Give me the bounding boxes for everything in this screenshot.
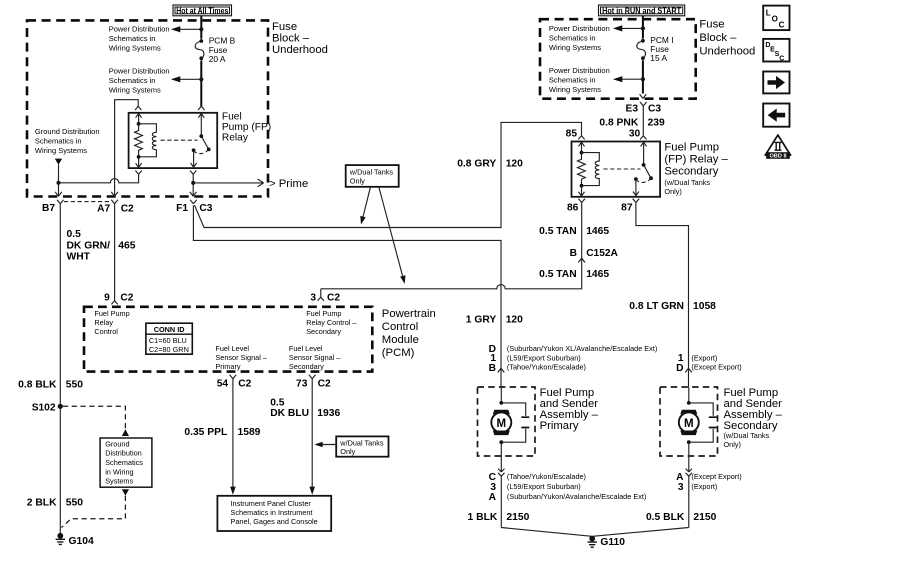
fuse block underhood dashed border (right)	[540, 19, 696, 99]
connector arrow down at B7 border	[55, 192, 62, 196]
arrow ground distribution pointer	[55, 159, 62, 165]
dashed reference from box bottom to G104 wire	[62, 496, 126, 528]
svg-text:550: 550	[66, 379, 83, 390]
svg-text:Primary: Primary	[540, 420, 579, 432]
svg-text:Wiring Systems: Wiring Systems	[109, 85, 161, 94]
label Fuel Level Sensor Signal Secondary (pcm internal)	[289, 344, 341, 371]
svg-text:Fuel Level: Fuel Level	[289, 344, 323, 353]
svg-text:465: 465	[118, 240, 135, 251]
svg-text:Ground Distribution: Ground Distribution	[35, 127, 100, 136]
wire A7 to PCM pin 9	[114, 206, 116, 301]
svg-text:C2=80 GRN: C2=80 GRN	[149, 345, 189, 354]
connector arrow down at F1 border	[190, 192, 197, 196]
arrow triangle up at box top	[122, 429, 129, 436]
svg-text:(w/Dual Tanks: (w/Dual Tanks	[724, 431, 770, 440]
dashed connector tie B7 to A7	[64, 201, 111, 203]
label Power Distribution Schematics in Wiring Systems 1 (left)	[109, 24, 170, 52]
svg-text:(Tahoe/Yukon/Escalade): (Tahoe/Yukon/Escalade)	[507, 472, 586, 481]
svg-text:Power Distribution: Power Distribution	[549, 24, 610, 33]
svg-text:Fuel Pump: Fuel Pump	[306, 309, 341, 318]
label Fuel Pump Relay Control (pcm internal)	[94, 309, 129, 336]
svg-text:F1: F1	[176, 203, 188, 214]
connector half Y-down at secondary relay pin 30	[640, 136, 646, 140]
svg-text:Secondary: Secondary	[289, 362, 324, 371]
icon OBD II warning triangle	[765, 135, 790, 160]
wire pin 73 to instrument panel cluster	[311, 381, 313, 488]
node ground junction dot	[57, 181, 61, 185]
svg-text:Sensor Signal –: Sensor Signal –	[215, 353, 267, 362]
connector half Y-down at PCM pin 3	[318, 289, 324, 301]
svg-text:Only: Only	[350, 176, 365, 185]
node prime junction dot	[191, 181, 195, 185]
node secondary coil bottom dot	[580, 184, 584, 188]
wire primary pump ground to G110	[501, 528, 592, 537]
switch common and blade primary relay	[198, 114, 208, 150]
svg-text:OBD II: OBD II	[769, 154, 787, 160]
arrow from w/Dual Tanks to 0.8 GRY wire	[363, 187, 371, 218]
svg-text:Block –: Block –	[699, 32, 737, 44]
svg-text:in Wiring: in Wiring	[105, 467, 133, 476]
svg-text:Panel, Gages and Console: Panel, Gages and Console	[231, 517, 318, 526]
svg-text:C152A: C152A	[586, 248, 618, 259]
svg-text:Fuel Pump: Fuel Pump	[664, 142, 719, 154]
svg-text:(Suburban/Yukon/Avalanche/Esca: (Suburban/Yukon/Avalanche/Escalade Ext)	[507, 492, 646, 501]
svg-text:Underhood: Underhood	[699, 45, 755, 57]
svg-text:Distribution: Distribution	[105, 449, 142, 458]
svg-text:A: A	[489, 492, 497, 503]
relay box Fuel Pump FP Relay	[129, 113, 218, 168]
pin arrow up coil top inside secondary relay	[579, 142, 585, 152]
fuse PCM B 20A symbol	[195, 39, 204, 60]
svg-text:C1=60 BLU: C1=60 BLU	[149, 336, 187, 345]
svg-text:Power Distribution: Power Distribution	[109, 66, 170, 75]
svg-text:Schematics in Instrument: Schematics in Instrument	[231, 508, 313, 517]
label Fuel Pump and Sender Assembly Primary	[540, 387, 599, 432]
box w/Dual Tanks Only (lower)	[336, 436, 388, 456]
svg-text:1058: 1058	[693, 301, 716, 312]
label Fuel Pump and Sender Assembly Secondary	[724, 387, 783, 449]
svg-text:E3: E3	[626, 103, 639, 114]
dashed box Fuel Pump and Sender Assembly Primary	[478, 387, 536, 456]
pin arrow down coil bottom inside relay	[136, 157, 142, 168]
ground G104 symbol	[56, 533, 65, 545]
box Ground Distribution Schematics	[100, 438, 152, 487]
svg-text:G104: G104	[69, 536, 94, 547]
svg-text:Hot in RUN and START: Hot in RUN and START	[602, 5, 682, 15]
svg-text:1589: 1589	[238, 427, 261, 438]
wire 0.8 PNK down to relay pin 30	[642, 106, 644, 136]
connector half Y-up below PCM pin 73	[309, 375, 316, 381]
svg-text:(Tahoe/Yukon/Escalade): (Tahoe/Yukon/Escalade)	[507, 363, 586, 372]
connector arrow down at A7 border	[111, 192, 118, 196]
svg-text:1465: 1465	[586, 269, 609, 280]
svg-text:(PCM): (PCM)	[382, 347, 415, 359]
conn id box	[146, 323, 192, 354]
svg-text:Block –: Block –	[272, 32, 310, 44]
svg-text:(L59/Export Suburban): (L59/Export Suburban)	[507, 353, 581, 362]
svg-text:Fuse: Fuse	[699, 18, 724, 30]
pin arrow up coil top inside relay	[136, 114, 142, 124]
label Power Distribution Schematics in Wiring Systems 2 (right)	[549, 66, 610, 94]
svg-text:0.8 PNK: 0.8 PNK	[599, 117, 638, 128]
svg-text:B7: B7	[42, 203, 55, 214]
svg-text:1936: 1936	[317, 408, 340, 419]
svg-text:Powertrain: Powertrain	[382, 308, 436, 320]
svg-text:Schematics in: Schematics in	[549, 76, 596, 85]
svg-text:L: L	[766, 9, 771, 18]
connector marks secondary pump feed (arrow down plus Y)	[685, 361, 692, 387]
svg-text:1465: 1465	[586, 226, 609, 237]
connector half Y-up below PCM pin 54	[230, 375, 237, 381]
svg-text:S102: S102	[32, 402, 56, 413]
svg-text:Fuse: Fuse	[272, 21, 297, 33]
connector marks secondary pump return (arrow down plus Y)	[686, 456, 692, 528]
svg-text:Ground: Ground	[105, 439, 129, 448]
svg-text:Schematics in: Schematics in	[549, 33, 596, 42]
svg-text:(Export): (Export)	[691, 353, 717, 362]
svg-text:DK GRN/: DK GRN/	[67, 240, 111, 251]
node S102 junction dot	[58, 404, 63, 409]
connector half Y-up below border E3	[640, 102, 647, 106]
relay box Fuel Pump FP Relay Secondary	[572, 142, 661, 197]
connector marks primary pump feed (arrow down plus Y)	[498, 361, 505, 387]
wire relay output down to F1	[192, 174, 194, 192]
svg-text:C: C	[779, 20, 785, 29]
svg-text:120: 120	[506, 158, 523, 169]
pin arrow down coil bottom inside secondary relay	[579, 186, 585, 196]
svg-text:Control: Control	[94, 327, 118, 336]
svg-text:C2: C2	[121, 204, 134, 215]
svg-text:239: 239	[648, 117, 665, 128]
svg-text:C2: C2	[327, 292, 340, 303]
node coil top dot	[137, 122, 141, 126]
icon LOC button	[763, 6, 789, 31]
arrow from w/Dual Tanks Only to pin 73 wire	[320, 444, 336, 446]
svg-text:Power Distribution: Power Distribution	[109, 24, 170, 33]
svg-text:C2: C2	[120, 292, 133, 303]
svg-text:Schematics: Schematics	[105, 458, 143, 467]
connector half Y-down at relay pin 86 top	[135, 106, 141, 110]
svg-text:Secondary: Secondary	[664, 166, 718, 178]
svg-text:1 BLK: 1 BLK	[468, 512, 498, 523]
label PCM I Fuse 15 A	[650, 35, 673, 63]
svg-text:Module: Module	[382, 334, 419, 346]
svg-text:Fuel: Fuel	[222, 111, 242, 122]
node junction dot lower (power dist 2)	[199, 77, 203, 81]
wire arrow to Power Distribution 1 (right)	[620, 27, 643, 29]
capacitor suppression primary pump	[501, 403, 529, 442]
svg-text:(Except Export): (Except Export)	[691, 472, 741, 481]
svg-text:Only): Only)	[664, 187, 681, 196]
label Powertrain Control Module (PCM)	[382, 308, 436, 359]
svg-text:(L59/Export Suburban): (L59/Export Suburban)	[507, 482, 581, 491]
wire F1 split diagonal to 0.8 GRY run	[195, 122, 582, 227]
svg-text:0.8 GRY: 0.8 GRY	[457, 158, 496, 169]
svg-text:3: 3	[310, 292, 316, 303]
svg-text:0.5 TAN: 0.5 TAN	[539, 269, 577, 280]
svg-text:30: 30	[629, 129, 641, 140]
connector half Y-up below border B7	[57, 200, 64, 206]
svg-text:Relay Control –: Relay Control –	[306, 318, 357, 327]
label Hot at All Times	[173, 5, 232, 16]
dashed actuation link primary relay	[161, 139, 198, 141]
node junction dot lower right block	[641, 77, 645, 81]
node coil bottom dot	[137, 155, 141, 159]
svg-text:2150: 2150	[693, 512, 716, 523]
svg-text:(FP) Relay –: (FP) Relay –	[664, 154, 728, 166]
svg-text:20 A: 20 A	[209, 54, 226, 64]
label Fuel Pump (FP) Relay	[222, 111, 271, 143]
label Instrument Panel Cluster Schematics	[231, 499, 318, 526]
wire hook from coil top to A7 feed	[115, 100, 139, 197]
motor M primary pump	[491, 387, 511, 456]
motor M secondary pump	[679, 387, 699, 456]
wire arrow to Power Distribution 2	[178, 78, 201, 80]
svg-text:15 A: 15 A	[650, 53, 667, 63]
svg-text:WHT: WHT	[67, 251, 91, 262]
svg-text:C3: C3	[199, 203, 212, 214]
switch output pin primary relay with dashed arc	[192, 148, 196, 152]
svg-text:Only): Only)	[724, 440, 741, 449]
svg-text:G110: G110	[600, 537, 625, 548]
label Fuel Pump Relay Control Secondary (pcm internal)	[306, 309, 357, 336]
label 0.5 DK BLU	[270, 397, 309, 419]
svg-text:Hot at All Times: Hot at All Times	[176, 5, 228, 15]
node junction dot upper (power dist 1)	[199, 27, 203, 31]
svg-text:Schematics in: Schematics in	[109, 34, 156, 43]
label Fuse Block - Underhood (left)	[272, 21, 328, 56]
svg-text:M: M	[684, 418, 694, 430]
svg-text:Schematics in: Schematics in	[109, 76, 156, 85]
svg-text:Only: Only	[340, 447, 355, 456]
capacitor suppression secondary pump	[689, 403, 717, 442]
wire pin 87 down right to 0.8 LT GRN run	[636, 203, 689, 362]
icon left arrow button	[763, 104, 789, 127]
switch common and blade secondary relay	[641, 142, 651, 178]
svg-text:C2: C2	[318, 379, 331, 390]
label Fuse Block - Underhood (right)	[699, 18, 755, 57]
svg-text:(Export): (Export)	[691, 482, 717, 491]
svg-text:Wiring Systems: Wiring Systems	[109, 43, 161, 52]
svg-text:w/Dual Tanks: w/Dual Tanks	[339, 438, 384, 447]
svg-text:Relay: Relay	[94, 318, 113, 327]
svg-text:> Prime: > Prime	[269, 178, 308, 190]
label Power Distribution Schematics in Wiring Systems 1 (right)	[549, 24, 610, 52]
wire arrow to Power Distribution 2 (right)	[620, 78, 643, 80]
icon DESC button	[763, 39, 789, 63]
svg-text:Secondary: Secondary	[306, 327, 341, 336]
arrow from w/Dual Tanks to pin 3 wire	[379, 187, 403, 277]
svg-text:(Except Export): (Except Export)	[691, 363, 741, 372]
resistor primary relay	[135, 124, 143, 157]
svg-text:B: B	[570, 248, 577, 259]
svg-text:120: 120	[506, 315, 523, 326]
dashed reference from S102 to ground distribution box	[63, 406, 126, 429]
wire F1 straight down to 1 GRY run	[193, 205, 501, 361]
svg-text:(w/Dual Tanks: (w/Dual Tanks	[664, 178, 710, 187]
icon right arrow button	[763, 72, 789, 94]
svg-text:Underhood: Underhood	[272, 44, 328, 56]
svg-text:0.8 LT GRN: 0.8 LT GRN	[629, 301, 684, 312]
svg-text:Fuel Pump: Fuel Pump	[94, 309, 129, 318]
wire hot feed from Hot at All Times through PCM B fuse	[200, 16, 202, 107]
svg-text:Relay: Relay	[222, 132, 249, 143]
svg-text:C2: C2	[238, 379, 251, 390]
connector half Y-up below secondary relay pin 87	[633, 199, 640, 203]
svg-text:Wiring Systems: Wiring Systems	[549, 43, 601, 52]
svg-text:Wiring Systems: Wiring Systems	[35, 146, 87, 155]
wire pin 86 down and left to PCM pin 3 (hop over 1 GRY)	[321, 203, 582, 289]
wire B7 down to S102 and G104	[59, 206, 61, 533]
svg-text:9: 9	[104, 292, 110, 303]
svg-text:86: 86	[567, 203, 579, 214]
wire hot feed from Hot in RUN and START through PCM I fuse	[642, 16, 644, 94]
svg-text:Wiring Systems: Wiring Systems	[549, 85, 601, 94]
label Ground Distribution Schematics in Wiring Systems	[35, 127, 100, 155]
box Instrument Panel Cluster	[217, 496, 331, 531]
svg-text:2150: 2150	[506, 512, 529, 523]
svg-text:0.5: 0.5	[270, 397, 285, 408]
svg-text:Primary: Primary	[215, 362, 240, 371]
svg-text:Pump (FP): Pump (FP)	[222, 122, 271, 133]
label Hot in RUN and START	[599, 5, 685, 16]
connector half Y-up below border A7	[111, 200, 118, 206]
svg-text:Schematics in: Schematics in	[35, 137, 82, 146]
node junction dot upper right block	[641, 26, 645, 30]
svg-text:(Suburban/Yukon XL/Avalanche/E: (Suburban/Yukon XL/Avalanche/Escalade Ex…	[507, 344, 657, 353]
connector half Y-down at PCM pin 9	[111, 301, 117, 305]
svg-text:54: 54	[217, 379, 229, 390]
box w/Dual Tanks Only (upper)	[346, 165, 399, 187]
connector half Y-down at secondary relay pin 85	[578, 136, 584, 140]
svg-text:Systems: Systems	[105, 477, 133, 486]
dashed actuation link secondary relay	[603, 168, 640, 170]
fuse PCM I 15A symbol	[637, 39, 646, 60]
pcm dashed box	[84, 307, 372, 372]
svg-text:73: 73	[296, 379, 308, 390]
connector half Y-up at relay pin 87 bottom	[190, 171, 196, 175]
wire ground branch vertical to border	[58, 164, 60, 196]
label Fuel Level Sensor Signal Primary (pcm internal)	[215, 344, 267, 371]
connector half Y-up below border F1	[190, 200, 197, 204]
svg-text:Fuel Level: Fuel Level	[215, 344, 249, 353]
connector arrow down at E3 border	[640, 94, 647, 98]
inductor coil primary relay	[139, 124, 157, 157]
switch output pin secondary relay with dashed arc	[634, 177, 638, 181]
svg-text:C: C	[779, 56, 784, 63]
wire prime output with open arrow	[193, 179, 263, 187]
svg-text:Instrument Panel Cluster: Instrument Panel Cluster	[231, 499, 312, 508]
inductor coil secondary relay	[582, 153, 600, 186]
svg-text:Sensor Signal –: Sensor Signal –	[289, 353, 341, 362]
svg-text:2 BLK: 2 BLK	[27, 497, 57, 508]
dashed box Fuel Pump and Sender Assembly Secondary	[660, 387, 718, 456]
svg-text:0.5 TAN: 0.5 TAN	[539, 226, 577, 237]
svg-text:Control: Control	[382, 321, 418, 333]
svg-text:C3: C3	[648, 103, 661, 114]
svg-text:B: B	[489, 363, 496, 374]
svg-text:CONN ID: CONN ID	[154, 325, 185, 334]
label PCM B Fuse 20 A	[209, 36, 236, 64]
label Ground Distribution Schematics in Wiring Systems (box)	[105, 439, 143, 485]
label Power Distribution Schematics in Wiring Systems 2 (left)	[109, 66, 170, 94]
svg-text:550: 550	[66, 497, 83, 508]
svg-text:0.5: 0.5	[67, 229, 82, 240]
connector half Y-down at relay pin 30 top	[198, 106, 204, 110]
svg-text:DK BLU: DK BLU	[270, 408, 309, 419]
label Fuel Pump (FP) Relay Secondary	[664, 142, 728, 196]
connector half Y-up at relay pin 86 bottom	[135, 171, 141, 175]
label 0.5 DK GRN/ WHT	[67, 229, 111, 262]
svg-text:A7: A7	[97, 204, 110, 215]
svg-text:3: 3	[678, 482, 684, 493]
connector half Y-up below secondary relay pin 86	[578, 199, 585, 203]
svg-text:87: 87	[621, 203, 633, 214]
ground G110 symbol	[588, 536, 597, 548]
node secondary coil top dot	[580, 151, 584, 155]
svg-text:1 GRY: 1 GRY	[466, 315, 497, 326]
svg-text:0.5 BLK: 0.5 BLK	[646, 512, 685, 523]
svg-text:w/Dual Tanks: w/Dual Tanks	[349, 168, 394, 177]
svg-text:0.35 PPL: 0.35 PPL	[184, 427, 227, 438]
svg-text:D: D	[676, 363, 683, 374]
wire pin 54 to instrument panel cluster	[232, 381, 234, 488]
wire ground horizontal to relay coil (hop over A7 wire)	[59, 175, 139, 183]
svg-text:0.8 BLK: 0.8 BLK	[18, 379, 57, 390]
connector chevron up C152A inline	[578, 258, 585, 262]
connector marks primary pump return (arrow down plus Y)	[498, 456, 504, 528]
svg-text:M: M	[497, 418, 507, 430]
wire secondary pump ground to G110	[593, 528, 689, 537]
fuse block underhood dashed border (left)	[27, 20, 268, 196]
resistor secondary relay	[578, 153, 586, 186]
svg-text:O: O	[772, 15, 778, 24]
wire arrow to Power Distribution 1	[178, 28, 201, 30]
svg-text:85: 85	[566, 129, 578, 140]
svg-text:Power Distribution: Power Distribution	[549, 66, 610, 75]
arrow triangle down at box bottom	[122, 489, 129, 496]
